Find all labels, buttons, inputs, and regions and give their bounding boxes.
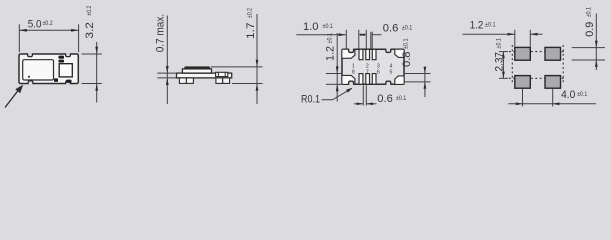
svg-text:±0.1: ±0.1 [577, 91, 587, 98]
svg-text:3: 3 [377, 63, 380, 69]
svg-text:0.6: 0.6 [383, 23, 399, 35]
svg-text:8: 8 [352, 70, 355, 76]
svg-text:±0.1: ±0.1 [326, 33, 333, 44]
svg-text:±0.1: ±0.1 [586, 6, 593, 17]
svg-text:±0.1: ±0.1 [496, 38, 503, 49]
svg-text:1.7: 1.7 [245, 22, 257, 39]
svg-text:7: 7 [366, 70, 369, 76]
svg-text:5.0: 5.0 [28, 18, 42, 30]
svg-text:4: 4 [390, 63, 393, 69]
svg-text:1.0: 1.0 [303, 21, 319, 33]
svg-text:1.2: 1.2 [324, 46, 336, 61]
svg-text:R0.1: R0.1 [301, 94, 320, 106]
svg-text:1.2: 1.2 [470, 20, 484, 32]
svg-text:0.6: 0.6 [377, 93, 393, 105]
svg-text:1: 1 [352, 63, 355, 69]
svg-text:±0.2: ±0.2 [86, 5, 93, 15]
svg-text:±0.1: ±0.1 [403, 38, 410, 49]
svg-text:±0.2: ±0.2 [43, 20, 53, 27]
svg-text:±0.1: ±0.1 [323, 23, 334, 30]
svg-text:±0.1: ±0.1 [402, 24, 413, 31]
svg-text:±0.1: ±0.1 [485, 22, 496, 29]
svg-text:5: 5 [390, 70, 393, 76]
svg-text:0.9: 0.9 [584, 22, 596, 37]
svg-text:3.2: 3.2 [84, 22, 96, 39]
svg-text:±0.2: ±0.2 [247, 8, 254, 18]
svg-text:2: 2 [366, 63, 369, 69]
svg-text:6: 6 [377, 70, 380, 76]
svg-text:0.8: 0.8 [401, 51, 413, 67]
svg-text:4.0: 4.0 [561, 89, 575, 101]
svg-text:0.7 max.: 0.7 max. [155, 14, 167, 53]
svg-text:±0.1: ±0.1 [396, 95, 407, 102]
